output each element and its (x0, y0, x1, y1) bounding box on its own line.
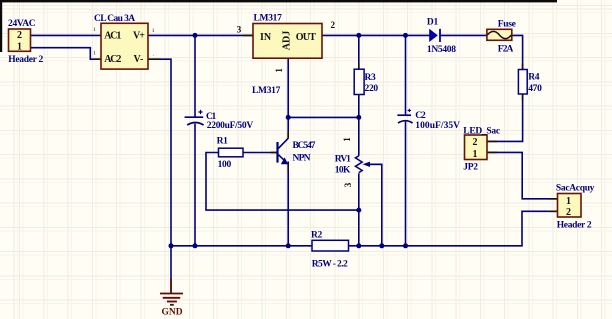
svg-text:BC547: BC547 (293, 141, 316, 151)
svg-text:D1: D1 (427, 17, 439, 27)
svg-text:LM317: LM317 (252, 86, 281, 96)
connector J1 24VAC body (9, 29, 31, 52)
pin stub R3 top (358, 63, 360, 69)
wire: LM317 OUT to D1 anode (322, 34, 429, 36)
wire: C2 top stem from node (405, 35, 407, 115)
wire: V- down to bottom rail (148, 59, 171, 246)
svg-text:GND: GND (162, 308, 183, 318)
pin stub R4 top (522, 64, 524, 70)
wire: R1 right to Q1 base (243, 152, 277, 154)
resistor R3 (354, 69, 364, 94)
wire: RV1 bottom lead to rail (358, 173, 360, 246)
svg-text:10K: 10K (335, 165, 351, 175)
svg-text:100: 100 (218, 160, 232, 170)
svg-text:1: 1 (274, 68, 284, 73)
junction node rail/C1 (193, 243, 198, 248)
svg-text:1: 1 (342, 137, 352, 142)
fuse F1 (487, 29, 512, 40)
wire: C1 top stem (194, 35, 196, 117)
svg-text:1: 1 (93, 51, 96, 57)
svg-text:1: 1 (152, 28, 155, 34)
svg-text:1: 1 (93, 27, 96, 33)
svg-text:V+: V+ (133, 31, 145, 42)
wire: header pin1 to AC2 (L-shape) (31, 48, 102, 60)
wire: LED pin1 to SacAcquy pin1 (487, 152, 558, 198)
svg-text:.: . (153, 52, 155, 58)
junction node rail/C2 (403, 243, 408, 248)
svg-text:470: 470 (528, 84, 542, 94)
svg-text:LED_Sac: LED_Sac (463, 126, 500, 136)
svg-text:1N5408: 1N5408 (427, 45, 456, 55)
left window border (0, 0, 2, 52)
svg-text:2200uF/50V: 2200uF/50V (207, 121, 254, 131)
connector JP2 LED_Sac body (465, 135, 488, 160)
resistor R2 (312, 240, 349, 251)
svg-text:2: 2 (17, 30, 22, 41)
svg-text:1: 1 (17, 41, 22, 52)
svg-text:2: 2 (331, 20, 336, 30)
junction node on output rail at R3 (356, 33, 361, 38)
svg-text:AC1: AC1 (104, 31, 121, 42)
svg-text:Header 2: Header 2 (557, 221, 592, 231)
pin stub R4 bottom (522, 94, 524, 101)
wire: V+ to LM317 IN (148, 34, 253, 36)
svg-text:100uF/35V: 100uF/35V (415, 121, 460, 131)
svg-text:R4: R4 (528, 72, 540, 82)
svg-text:Fuse: Fuse (498, 19, 516, 29)
svg-text:Header 2: Header 2 (8, 55, 43, 65)
connector J2 SacAcquy body (558, 194, 582, 219)
wire: Q1 emitter down to rail (287, 162, 289, 246)
wire: header pin2 to AC1 (31, 34, 102, 36)
wire: GND stub (170, 246, 172, 294)
svg-text:220: 220 (365, 84, 379, 94)
pin stub V- (148, 58, 161, 60)
junction node rail/emitter (286, 243, 291, 248)
wire: bottom rail left section (171, 245, 312, 247)
bridge rectifier U CL Cau 3A body (101, 23, 148, 69)
junction node on input rail at C1 (193, 33, 198, 38)
svg-text:CL Cau 3A: CL Cau 3A (94, 14, 135, 24)
pin stub SacAcquy pin2 (549, 210, 558, 212)
wire: LM317 ADJ down (287, 58, 289, 117)
pin stub AC2 (94, 58, 101, 60)
junction node ADJ/collector (286, 115, 291, 120)
capacitor C1 (185, 110, 204, 125)
pin stub LED pin2 (487, 140, 497, 142)
svg-text:V-: V- (134, 54, 144, 65)
svg-text:ADJ: ADJ (282, 31, 293, 50)
capacitor C2 (397, 109, 412, 123)
svg-text:F2A: F2A (498, 44, 514, 54)
wire: R4 bottom to LED pin2 (487, 94, 523, 141)
wire: D1 cathode to fuse (441, 34, 487, 36)
wire: SacAcquy pin2 stub (547, 210, 558, 212)
svg-text:1: 1 (473, 149, 478, 160)
junction node rail/wiper (379, 243, 384, 248)
junction node rail/GND (169, 243, 174, 248)
junction node on output rail at C2 (403, 33, 408, 38)
wire: C2 bottom stem to rail (405, 122, 407, 246)
diode D1 (429, 29, 440, 42)
junction node rail/RV1 (356, 243, 361, 248)
svg-text:2: 2 (566, 207, 571, 218)
wire: bottom rail right section (349, 211, 547, 246)
svg-text:R3: R3 (365, 73, 377, 83)
wire: node to R3 top (358, 35, 360, 69)
svg-text:24VAC: 24VAC (8, 19, 36, 29)
svg-text:NPN: NPN (293, 154, 311, 164)
wire: ADJ node down to Q1 collector (287, 117, 289, 138)
ground symbol (160, 278, 183, 305)
wire: R1 left lead down and across to RV1 node (206, 153, 359, 211)
svg-text:RV1: RV1 (335, 155, 351, 165)
pin stub LM317 IN (243, 34, 253, 36)
svg-text:2: 2 (473, 137, 478, 148)
pin stub SacAcquy pin1 (549, 198, 558, 200)
junction node R3/RV1 (356, 115, 361, 120)
wire: RV1 wiper to the right and down to rail (366, 164, 382, 246)
regulator U1 LM317 body (253, 24, 322, 59)
junction node RV1 lead / R1 wire (356, 208, 361, 213)
transistor Q1 BC547 (271, 132, 289, 172)
svg-text:R2: R2 (311, 231, 323, 241)
svg-text:3: 3 (343, 182, 353, 187)
svg-text:R1: R1 (217, 137, 229, 147)
svg-text:JP2: JP2 (463, 163, 478, 173)
resistor R1 (219, 148, 244, 157)
svg-text:R5W - 2.2: R5W - 2.2 (312, 260, 348, 270)
svg-text:IN: IN (260, 32, 272, 43)
wire: R3 bottom to ADJ node (358, 95, 360, 118)
potentiometer RV1 (355, 156, 381, 173)
wire: C1 bottom stem to rail (194, 124, 196, 246)
wire: fuse to R4 top (512, 35, 523, 69)
svg-text:SacAcquy: SacAcquy (556, 183, 595, 193)
svg-text:C2: C2 (415, 111, 426, 121)
svg-text:3: 3 (237, 25, 242, 35)
svg-text:LM317: LM317 (254, 13, 283, 23)
svg-text:OUT: OUT (296, 32, 316, 43)
top window border (0, 0, 557, 2)
wire: R3 node down to RV1 top (358, 117, 360, 155)
wire: ADJ node to R3 node (288, 116, 359, 118)
resistor R4 (518, 70, 527, 95)
svg-text:AC2: AC2 (104, 54, 121, 65)
pin stub LED pin1 (487, 151, 497, 153)
svg-text:1: 1 (566, 196, 571, 207)
